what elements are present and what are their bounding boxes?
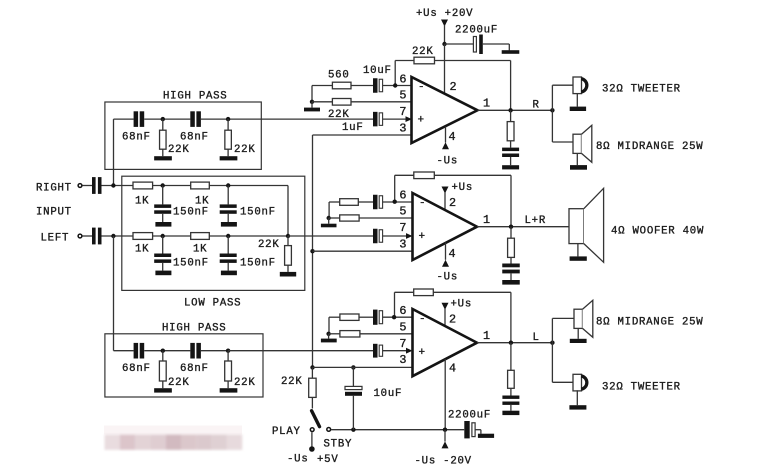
svg-text:2: 2 <box>449 196 457 210</box>
svg-text:6: 6 <box>399 189 407 203</box>
svg-text:+: + <box>418 115 425 127</box>
svg-text:2: 2 <box>450 80 458 94</box>
svg-text:4: 4 <box>449 362 457 376</box>
svg-text:3: 3 <box>399 353 407 367</box>
svg-text:-: - <box>419 314 426 326</box>
svg-text:32Ω TWEETER: 32Ω TWEETER <box>602 84 681 96</box>
svg-text:22K: 22K <box>281 376 303 388</box>
svg-text:4Ω WOOFER 40W: 4Ω WOOFER 40W <box>611 226 704 238</box>
svg-text:7: 7 <box>399 105 407 119</box>
svg-text:10uF: 10uF <box>363 65 392 77</box>
svg-text:68nF: 68nF <box>122 363 151 375</box>
svg-text:7: 7 <box>399 337 407 351</box>
svg-text:10uF: 10uF <box>374 388 403 400</box>
svg-text:STBY: STBY <box>324 438 353 450</box>
svg-text:560: 560 <box>328 70 350 82</box>
svg-text:150nF: 150nF <box>240 257 276 269</box>
svg-text:7: 7 <box>399 221 407 235</box>
svg-text:150nF: 150nF <box>173 207 209 219</box>
svg-text:+: + <box>419 347 426 359</box>
svg-text:-: - <box>418 82 425 94</box>
svg-text:-Us: -Us <box>437 156 459 168</box>
svg-text:+5V: +5V <box>317 454 339 466</box>
svg-text:HIGH PASS: HIGH PASS <box>163 91 227 103</box>
svg-text:150nF: 150nF <box>240 207 276 219</box>
svg-text:22K: 22K <box>234 377 256 389</box>
svg-text:1K: 1K <box>135 196 149 208</box>
svg-text:6: 6 <box>399 73 407 87</box>
svg-text:-Us: -Us <box>437 272 459 284</box>
svg-text:1K: 1K <box>195 196 209 208</box>
svg-text:2200uF: 2200uF <box>455 25 498 37</box>
svg-text:L: L <box>533 332 540 344</box>
svg-text:8Ω MIDRANGE 25W: 8Ω MIDRANGE 25W <box>596 317 703 329</box>
svg-text:+: + <box>419 231 426 243</box>
svg-text:+Us: +Us <box>452 182 474 194</box>
svg-text:150nF: 150nF <box>173 257 209 269</box>
svg-text:R: R <box>533 100 540 112</box>
svg-text:3: 3 <box>399 122 407 136</box>
svg-text:68nF: 68nF <box>122 132 151 144</box>
svg-text:1: 1 <box>483 97 491 111</box>
svg-text:+Us +20V: +Us +20V <box>416 8 473 20</box>
svg-text:32Ω TWEETER: 32Ω TWEETER <box>602 382 681 394</box>
svg-text:PLAY: PLAY <box>272 426 301 438</box>
svg-text:68nF: 68nF <box>180 363 209 375</box>
svg-text:68nF: 68nF <box>180 132 209 144</box>
svg-text:1: 1 <box>483 329 491 343</box>
svg-text:5: 5 <box>399 321 407 335</box>
svg-text:22K: 22K <box>412 46 434 58</box>
svg-text:INPUT: INPUT <box>36 207 72 219</box>
svg-text:22K: 22K <box>234 144 256 156</box>
svg-text:5: 5 <box>399 205 407 219</box>
svg-text:1: 1 <box>483 213 491 227</box>
svg-text:HIGH PASS: HIGH PASS <box>162 323 226 335</box>
svg-text:8Ω MIDRANGE 25W: 8Ω MIDRANGE 25W <box>596 141 703 153</box>
svg-text:5: 5 <box>399 89 407 103</box>
svg-text:22K: 22K <box>258 239 280 251</box>
svg-text:-Us -20V: -Us -20V <box>415 455 472 467</box>
svg-text:L+R: L+R <box>525 215 547 227</box>
svg-text:+Us: +Us <box>451 299 473 311</box>
svg-text:1K: 1K <box>135 244 149 256</box>
svg-text:6: 6 <box>399 304 407 318</box>
svg-text:1K: 1K <box>193 244 207 256</box>
svg-text:4: 4 <box>449 247 457 261</box>
svg-text:22K: 22K <box>168 377 190 389</box>
svg-text:3: 3 <box>399 238 407 252</box>
svg-text:22K: 22K <box>168 144 190 156</box>
svg-text:-: - <box>419 198 426 210</box>
svg-text:-Us: -Us <box>287 453 309 465</box>
svg-text:LOW PASS: LOW PASS <box>184 297 241 309</box>
svg-text:2: 2 <box>449 313 457 327</box>
svg-text:RIGHT: RIGHT <box>36 182 72 194</box>
svg-text:LEFT: LEFT <box>41 233 70 245</box>
svg-text:1uF: 1uF <box>342 122 364 134</box>
svg-text:2200uF: 2200uF <box>448 410 491 422</box>
svg-text:4: 4 <box>449 130 457 144</box>
